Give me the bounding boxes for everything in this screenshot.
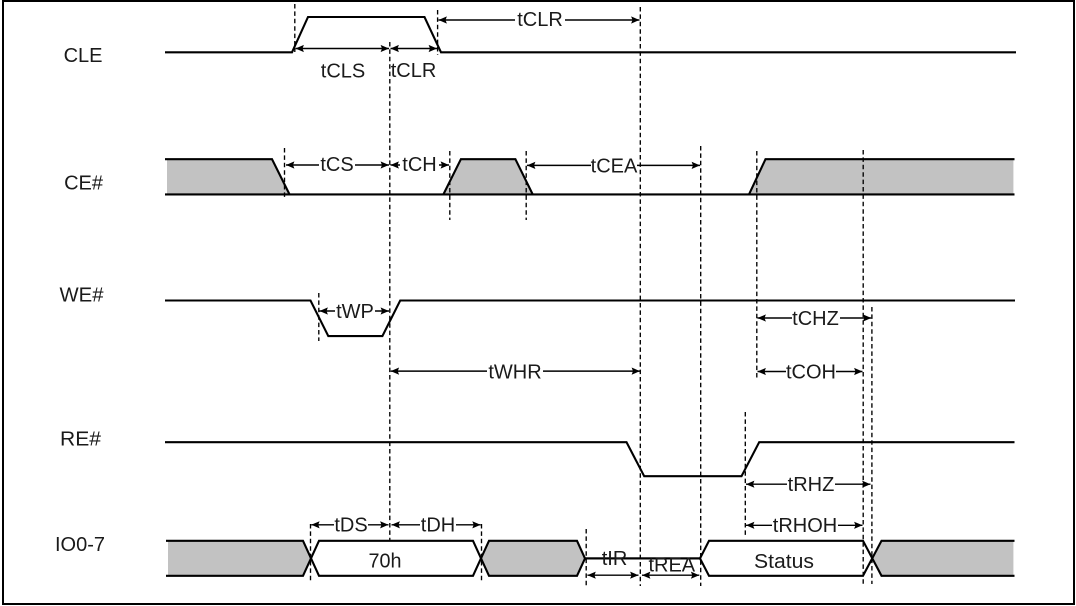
tWP label <box>335 300 375 323</box>
IO bus gray segment 2 fill <box>481 541 585 576</box>
tCS dimension arrow <box>286 164 389 166</box>
tCHZ label <box>792 307 840 330</box>
tCLR top dimension arrow <box>439 19 640 21</box>
tCEA label <box>591 155 638 177</box>
tCS label <box>319 154 355 176</box>
svg-text:tCLR: tCLR <box>517 9 563 31</box>
tDS dimension arrow <box>311 524 388 526</box>
svg-text:CE#: CE# <box>64 173 104 195</box>
CE# bus high block 1 fill <box>167 159 290 194</box>
CE# bus high block 3 fill <box>749 159 1013 194</box>
dashed marker at RE# rising edge <box>744 412 746 535</box>
tCLR top label <box>515 8 565 31</box>
tDH label <box>420 515 456 537</box>
tIR dimension arrow <box>587 574 638 576</box>
tCH dimension arrow <box>391 164 450 166</box>
svg-text:tIR: tIR <box>602 548 628 570</box>
RE# waveform <box>165 442 1015 476</box>
svg-text:70h: 70h <box>369 551 402 573</box>
IO bus gray segment 1 fill <box>168 541 311 576</box>
tWHR dimension arrow <box>391 370 640 372</box>
svg-text:CLE: CLE <box>64 45 103 67</box>
dashed reference line x=872 <box>871 307 873 584</box>
tCLR small dimension arrow <box>391 48 438 50</box>
long dashed reference line x=701 <box>700 146 702 586</box>
dashed marker at CE# pulse rising edge <box>449 151 451 220</box>
tCOH dimension arrow <box>758 371 863 373</box>
svg-text:tWHR: tWHR <box>488 361 541 383</box>
svg-text:tCH: tCH <box>402 154 436 176</box>
svg-text:tCLR: tCLR <box>391 60 437 82</box>
svg-text:WE#: WE# <box>60 285 105 307</box>
dashed marker at IO crossover 2 <box>481 524 483 583</box>
tRHOH dimension arrow <box>746 524 863 526</box>
tCEA dimension arrow <box>527 164 700 166</box>
IO bus gray segment 3 fill <box>872 541 1013 576</box>
tWP dimension arrow <box>320 310 390 312</box>
svg-text:tCLS: tCLS <box>321 61 365 83</box>
CE# baseline wire <box>165 193 1015 195</box>
WE# waveform <box>165 301 1015 337</box>
svg-text:tRHZ: tRHZ <box>788 474 835 496</box>
CE# block 1 top and falling edge <box>165 159 290 194</box>
dashed marker at IO bus collapse point <box>585 529 587 586</box>
dashed marker at CLE rising edge <box>294 4 296 52</box>
svg-text:Status: Status <box>754 551 814 573</box>
tCH label <box>400 154 439 176</box>
tCOH label <box>786 361 836 383</box>
tCHZ dimension arrow <box>758 317 872 319</box>
dashed marker at CE# falling edge <box>284 148 286 198</box>
CE# block 2 outline <box>443 159 532 194</box>
svg-text:tWP: tWP <box>336 301 374 323</box>
svg-text:tCS: tCS <box>320 154 353 176</box>
dashed marker at WE# falling edge <box>318 293 320 341</box>
tDH dimension arrow <box>392 524 481 526</box>
svg-text:RE#: RE# <box>60 429 102 451</box>
tWHR label <box>487 360 543 383</box>
svg-text:tCOH: tCOH <box>786 361 836 383</box>
svg-text:IO0-7: IO0-7 <box>55 534 105 556</box>
tRHZ dimension arrow <box>746 483 871 485</box>
svg-text:tRHOH: tRHOH <box>773 515 837 537</box>
svg-text:tCEA: tCEA <box>591 155 638 177</box>
tCLS dimension arrow <box>296 48 390 50</box>
long dashed reference line x=640 <box>639 7 641 586</box>
svg-text:tDH: tDH <box>421 515 455 537</box>
dashed marker at CE# pulse falling edge <box>525 151 527 220</box>
IO bus upper rail with crossovers <box>166 541 1015 576</box>
tRHZ label <box>787 474 835 496</box>
dashed marker at CLE falling edge <box>437 10 439 55</box>
tDS label <box>334 515 368 537</box>
CLE waveform <box>165 17 1016 52</box>
svg-text:tREA: tREA <box>648 555 695 577</box>
dashed marker at IO crossover 1 <box>310 524 312 583</box>
CE# block 3 rising edge and top <box>749 159 1015 194</box>
long dashed reference line x=863 <box>862 150 864 584</box>
dashed marker at CE# block 3 rising edge <box>756 151 758 379</box>
CE# pulse block 2 fill <box>443 159 532 194</box>
tREA dimension arrow <box>642 574 699 576</box>
svg-text:tCHZ: tCHZ <box>792 308 839 330</box>
tRHOH label <box>772 515 838 537</box>
svg-text:tDS: tDS <box>334 515 367 537</box>
long dashed reference line x=390 <box>389 42 391 541</box>
IO bus lower rail with crossovers <box>166 541 1015 576</box>
